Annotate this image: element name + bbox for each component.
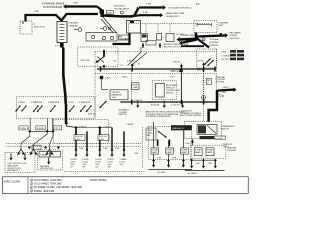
wire tag box lock 2 <box>98 135 109 141</box>
svg-text:UNIT: UNIT <box>219 25 225 27</box>
lock solenoid wire 1 upper <box>75 140 77 150</box>
node row wire <box>30 130 55 132</box>
fuse strip tick 2 <box>60 26 65 28</box>
lock solenoid wire 2 upper <box>86 131 88 150</box>
svg-text:1 BR: 1 BR <box>134 153 139 155</box>
svg-text:LOCKING: LOCKING <box>216 79 226 81</box>
junction lock wire r3 <box>214 159 217 162</box>
junction node row 1 <box>28 130 31 133</box>
junction top hatch 1 <box>142 44 145 47</box>
lamp box 2 <box>166 148 174 154</box>
wire feedbar to lock wires <box>66 123 76 127</box>
wire link right nodes <box>192 159 216 161</box>
wire switch drop 3 <box>52 118 54 131</box>
wire stub above bus 203 <box>203 63 205 70</box>
wire jog to breaker <box>102 88 109 90</box>
lock solenoid wire 3 arrow <box>99 150 101 154</box>
tailgate arrow <box>48 158 50 162</box>
svg-text:SWITCH: SWITCH <box>119 114 127 116</box>
dome wire 3 stub <box>182 154 184 160</box>
svg-text:10 RD/GN 1: 10 RD/GN 1 <box>114 6 127 8</box>
svg-text:P WINDOW: P WINDOW <box>79 102 90 104</box>
dashed separator upper <box>6 142 142 144</box>
wire lock row link <box>76 127 112 129</box>
svg-text:OVER: OVER <box>147 130 153 132</box>
svg-text:4 RD 1: 4 RD 1 <box>122 77 129 79</box>
svg-text:CONTROLLER: CONTROLLER <box>166 90 180 92</box>
junction lock solenoid wire 5 <box>123 149 126 152</box>
fuse strip tick 1 <box>60 23 65 25</box>
svg-text:77a: 77a <box>218 94 224 98</box>
junction node relay out <box>131 63 134 66</box>
svg-text:5 RD 30: 5 RD 30 <box>173 62 181 64</box>
dashed enclosure left edge <box>94 52 96 118</box>
svg-text:JUNCTION: JUNCTION <box>34 27 45 29</box>
lamp cluster bulb 2 <box>102 36 105 39</box>
lock solenoid wire 5 arrow <box>123 150 125 154</box>
wire stub above bus 181 <box>180 64 182 70</box>
svg-text:DOOR: DOOR <box>83 159 90 161</box>
wire node to actuator 1 <box>21 131 30 146</box>
rear inner small box <box>146 128 156 140</box>
solenoid wire b <box>163 101 165 106</box>
wire down from combination switch <box>192 139 194 146</box>
battery junction terminal <box>22 21 24 24</box>
svg-text:DM: DM <box>207 80 210 82</box>
svg-text:LIGHTS: LIGHTS <box>230 35 238 37</box>
svg-text:POSITION BULB: POSITION BULB <box>43 6 62 9</box>
fuse box 5 10A <box>146 41 156 46</box>
ignition switch second diagonal <box>98 57 105 63</box>
wire node to bus left <box>103 66 105 69</box>
wire switch drop 1 <box>29 118 31 131</box>
wire dome feed 1 <box>153 122 155 148</box>
left actuator arrow 2 <box>24 154 26 158</box>
master switch blade 2 <box>33 106 38 112</box>
dashed box top edge right of relay <box>129 23 210 25</box>
svg-text:P WDO: P WDO <box>18 102 25 104</box>
diagonal wires junction to lamp cluster <box>103 17 116 33</box>
svg-text:DOME: DOME <box>207 149 214 151</box>
connector hatch top 1 <box>142 43 143 48</box>
svg-text:FUSE: FUSE <box>132 85 138 87</box>
svg-text:2 127: 2 127 <box>170 77 176 79</box>
master switch blade 0 <box>16 106 21 112</box>
svg-text:ELECTRONIC ENGINE: ELECTRONIC ENGINE <box>180 115 202 117</box>
svg-text:2 127 RD: 2 127 RD <box>171 104 180 106</box>
arrow to slide bottom feed <box>139 6 163 8</box>
svg-text:4 127 RD: 4 127 RD <box>134 100 143 102</box>
junction stub 203 <box>202 63 205 66</box>
svg-text:VEHICLE: VEHICLE <box>166 88 175 90</box>
junction node row 3 <box>51 130 54 133</box>
wire thick diagonal to switch box <box>197 38 210 48</box>
bus1 connector hatch d <box>203 67 204 72</box>
combination switch hatch fill <box>198 125 206 133</box>
bus2 connector hatch c <box>203 100 204 105</box>
svg-text:WDO SW: WDO SW <box>81 60 90 62</box>
wire arrow to parking brake <box>66 5 97 7</box>
dome wire 3 arrow <box>182 161 184 165</box>
dome light label box <box>206 79 212 85</box>
tailgate actuator dashed box <box>38 150 63 170</box>
junction lock solenoid wire 2 <box>86 149 89 152</box>
wire switch drop 2 <box>46 118 48 131</box>
wire blob down <box>101 79 103 89</box>
lamp box 1 <box>151 148 159 154</box>
combination switch component <box>197 124 217 134</box>
ground bus right <box>185 169 225 171</box>
svg-text:NO GND: NO GND <box>157 172 166 174</box>
dashed vertical mid 131 <box>130 69 132 102</box>
actuator motor 2 <box>33 147 35 150</box>
svg-text:CLOSED: CLOSED <box>119 112 128 114</box>
ignition switch thick stub <box>103 51 105 57</box>
circled 2 on diagonal <box>108 27 111 30</box>
junction feed bar bottom <box>65 122 68 125</box>
svg-text:2 127 RD: 2 127 RD <box>171 71 180 73</box>
arrow left lower feed <box>182 40 197 43</box>
wire node to actuator 2 <box>34 131 48 146</box>
svg-text:1 BR: 1 BR <box>208 163 213 165</box>
dashed separator lower <box>6 145 142 147</box>
component box small 2 <box>157 34 162 41</box>
svg-text:4 BK 10: 4 BK 10 <box>88 113 96 115</box>
svg-text:2 BODY WIRING: 2 BODY WIRING <box>90 180 108 182</box>
main bus wire upper <box>97 68 216 70</box>
junction actuator b <box>44 146 47 149</box>
fuse strip tick 4 <box>60 32 65 34</box>
lamp cluster bulb 1 <box>91 35 94 38</box>
svg-text:NO GND 1: NO GND 1 <box>188 173 199 175</box>
legend row 4 digit <box>30 190 32 192</box>
svg-text:1 BK 4: 1 BK 4 <box>185 143 191 145</box>
wire stub flasher right to haz wire <box>220 33 222 37</box>
svg-text:LOCK: LOCK <box>108 162 114 164</box>
lamp box 3 <box>181 148 189 154</box>
svg-text:5 RD: 5 RD <box>34 11 39 13</box>
svg-text:WIRE COLORS:: WIRE COLORS: <box>4 181 21 183</box>
fuse strip tick 5 <box>60 35 65 37</box>
svg-text:4 BK/Y: 4 BK/Y <box>223 87 230 89</box>
svg-text:FRONT DOOR: FRONT DOOR <box>8 168 22 170</box>
svg-text:DOME: DOME <box>167 150 174 152</box>
wire thick down to combination switch <box>209 90 217 122</box>
svg-text:X PARKING BRAKE: X PARKING BRAKE <box>42 2 65 5</box>
anti-theft ic box <box>156 83 165 97</box>
master switch blade 6 <box>80 106 85 112</box>
junction label box SJB <box>107 11 114 15</box>
wire vertical 181 between buses <box>180 69 182 102</box>
master switch blade 1 <box>22 106 27 112</box>
junction dome wire 3 <box>182 159 185 162</box>
svg-text:SW: SW <box>147 135 150 137</box>
bus1 connector hatch c <box>181 67 182 72</box>
component box solid small <box>141 34 148 42</box>
lamp symbol 2 near cluster <box>103 27 107 31</box>
svg-text:DOOR: DOOR <box>108 159 115 161</box>
dome wire 1 stub <box>153 154 155 160</box>
anti-theft ic pins <box>155 84 156 86</box>
turn switch blade 1 <box>205 59 211 65</box>
lock solenoid wire 5 upper <box>123 131 125 150</box>
anti-theft dashed box <box>152 81 176 100</box>
svg-text:LOCK: LOCK <box>96 162 102 164</box>
tailgate dark component <box>39 152 50 158</box>
dashed drop wire 2 <box>157 24 159 34</box>
combination switch dashed box <box>184 122 221 139</box>
tag box 10 b rd <box>36 126 45 130</box>
svg-text:B7 RD: B7 RD <box>198 61 204 63</box>
connector hatch top 2 <box>159 43 160 48</box>
svg-text:SWITCH 5: SWITCH 5 <box>230 38 241 40</box>
component box small 3 <box>166 34 174 42</box>
switch row feed bar thick <box>65 104 68 123</box>
rear dark component 2 <box>200 136 215 139</box>
master switch dashed box <box>16 97 95 118</box>
svg-text:5 P: 5 P <box>55 46 59 48</box>
svg-text:1 BR: 1 BR <box>172 158 177 160</box>
ground bus left <box>149 169 193 171</box>
lock solenoid wire 1 arrow <box>75 150 77 154</box>
wire feed from junction to arrow <box>97 7 102 16</box>
lock wire r1 arrow <box>191 160 193 166</box>
wire relay to lamp cluster thick L <box>113 33 130 44</box>
junction node row 2 <box>46 130 49 133</box>
lock unit box 2 <box>206 148 214 156</box>
master switch blade 7 <box>86 106 91 112</box>
svg-text:TO SLIDE BOTTOM 0-5: TO SLIDE BOTTOM 0-5 <box>168 7 192 9</box>
svg-text:5 DB LO: 5 DB LO <box>75 136 83 138</box>
junction lock wire 1 <box>74 126 77 129</box>
svg-text:P WINDOW: P WINDOW <box>48 102 59 104</box>
bus1 connector hatch b <box>132 67 133 72</box>
svg-text:P 27 Y: P 27 Y <box>54 128 61 130</box>
junction actuator c <box>57 146 60 149</box>
legend row 1 digit <box>30 179 32 181</box>
lamp cluster box <box>86 33 117 42</box>
lock wiring dashed box <box>53 120 108 144</box>
rear switch blade <box>159 132 167 138</box>
junction node ignition out <box>102 65 105 68</box>
svg-text:SWITCH: SWITCH <box>221 129 229 131</box>
lock wire r2 arrow <box>202 160 204 166</box>
left door actuator dashed box <box>5 153 35 173</box>
lock unit box 1 <box>194 148 202 156</box>
svg-text:1 BR: 1 BR <box>196 163 201 165</box>
bus2 connector hatch a <box>131 100 132 105</box>
svg-text:DOME: DOME <box>195 149 202 151</box>
svg-text:P WDO 1: P WDO 1 <box>20 128 29 130</box>
flasher internal element <box>197 24 212 26</box>
junction comb switch out <box>191 140 194 143</box>
svg-text:LOCKING: LOCKING <box>209 42 219 44</box>
arrow to headlight feed <box>147 14 160 16</box>
turn signal switch dashed box <box>197 49 217 68</box>
svg-text:DOOR: DOOR <box>71 159 78 161</box>
solenoid wire c <box>182 101 184 106</box>
main bus wire lower <box>120 101 216 103</box>
flasher unit dashed box <box>194 21 217 33</box>
junction lock solenoid wire 1 <box>75 149 78 152</box>
svg-text:L TURN: L TURN <box>222 55 230 57</box>
connector S blob mid left <box>100 76 103 79</box>
wire junction to relay bus thick <box>104 14 132 17</box>
legend table box <box>3 177 249 194</box>
svg-text:CIRCUIT: CIRCUIT <box>112 92 121 94</box>
rear thick bar 1 <box>157 140 159 147</box>
relay contact diagonal wires <box>128 52 142 66</box>
actuator tag box <box>32 145 41 149</box>
wire dome feed 2 <box>168 141 170 148</box>
svg-text:SYSTEM: SYSTEM <box>216 82 225 84</box>
junction lock wire 2 <box>98 126 101 129</box>
legend divider <box>27 177 29 194</box>
dashed vertical 1 BR <box>141 127 143 168</box>
dashed vertical 203 lower <box>203 102 205 122</box>
junction dome wire 1 <box>152 159 155 162</box>
svg-text:DOOR: DOOR <box>96 159 103 161</box>
junction dome wire 2 <box>167 159 170 162</box>
master switch blade 4 <box>50 106 55 112</box>
rear wiring dashed box <box>149 126 192 159</box>
wire node to actuator 3 <box>50 131 54 146</box>
junction top hatch 2 <box>159 44 162 47</box>
rear dark component <box>171 125 192 130</box>
svg-text:5 RD 30: 5 RD 30 <box>127 61 136 63</box>
master switch blade 3 <box>37 106 42 112</box>
left actuator arrow 1 <box>10 154 12 158</box>
svg-text:SOLENOID IS ENERGIZED: SOLENOID IS ENERGIZED <box>146 116 172 118</box>
wire node to bus relay <box>131 65 133 69</box>
bus1 connector hatch a <box>100 67 101 72</box>
ignition switch arrow <box>98 60 100 61</box>
wire lock drop 2 upper <box>99 128 101 135</box>
lock solenoid wire 4 upper <box>111 128 113 151</box>
fuse strip tick 6 <box>60 38 65 40</box>
dashed line below bus1 <box>95 73 216 75</box>
wire lock drop 1 upper <box>75 128 77 135</box>
dashed enclosure top edge <box>95 51 216 53</box>
inline connector circle 5 <box>120 11 123 14</box>
junction bus2 181 <box>180 101 183 104</box>
wire bus to headlight arrow <box>132 15 148 16</box>
junction stub 181 <box>180 64 183 67</box>
node circle crossing <box>202 96 206 100</box>
svg-text:WDO MOTOR: WDO MOTOR <box>40 168 53 170</box>
circuit breaker box <box>110 90 128 100</box>
solenoid wire a <box>137 101 139 106</box>
scan background <box>0 0 251 200</box>
lock solenoid wire 4 arrow <box>111 150 113 154</box>
lock solenoid wire 2 arrow <box>86 150 88 154</box>
lamp cluster bulb 3 <box>110 36 113 39</box>
svg-text:RD SECURITY: RD SECURITY <box>115 9 130 11</box>
fuse strip box <box>57 22 67 43</box>
junction actuator a <box>28 146 31 149</box>
svg-text:5 DB LO: 5 DB LO <box>99 136 107 138</box>
actuator motor 1 <box>20 147 22 150</box>
bus2 connector hatch b <box>181 100 182 105</box>
actuator motor 3 <box>49 147 51 150</box>
svg-text:1 RD 1: 1 RD 1 <box>105 78 112 80</box>
svg-text:5 MODEL: 5 MODEL <box>69 23 79 25</box>
svg-text:DOME: DOME <box>181 150 188 152</box>
wire vertical 203 between buses <box>203 69 205 102</box>
lock solenoid wire 3 upper <box>99 140 101 150</box>
svg-text:P WINDOW: P WINDOW <box>31 102 42 104</box>
svg-text:10 RD BK: 10 RD BK <box>151 104 161 106</box>
right locking dashed box <box>190 145 226 158</box>
master switch blade 5 <box>69 106 74 112</box>
main feed wire thick vertical <box>63 48 66 105</box>
svg-text:UNIT 45: UNIT 45 <box>166 92 174 94</box>
ignition switch dashed box <box>78 47 118 66</box>
svg-text:DK GN: DK GN <box>222 59 229 61</box>
arrow left to power seats feed <box>180 38 197 41</box>
dashed enclosure bottom edge <box>64 170 145 172</box>
svg-text:LOCK: LOCK <box>120 162 126 164</box>
dome wire 2 arrow <box>168 161 170 165</box>
junction lock solenoid wire 3 <box>98 149 101 152</box>
fuse box 2 <box>132 83 139 90</box>
tag box p wdo 1 <box>19 126 28 130</box>
lock wire r3 arrow <box>214 160 216 166</box>
bus1 connector hatch e <box>214 67 215 72</box>
tag box p 27 y <box>53 126 61 130</box>
circled plus central locking <box>202 38 205 41</box>
wire thick bar lower left <box>181 45 204 47</box>
svg-text:2 RD: 2 RD <box>73 2 78 4</box>
dome wire 2 stub <box>168 154 170 160</box>
connector blob below fuse strip <box>60 43 64 48</box>
svg-text:LOCK: LOCK <box>83 162 89 164</box>
dome wire 1 arrow <box>153 161 155 165</box>
window lockout switch blade <box>100 102 107 109</box>
relay control box <box>127 21 141 34</box>
connector blob 5 BK <box>180 69 183 73</box>
dashed drop wire 3 <box>169 24 171 34</box>
wire tag box lock 1 <box>74 135 85 141</box>
junction lock wire r2 <box>202 159 205 162</box>
dashed drop wire 1 <box>145 24 147 34</box>
svg-text:LOCK: LOCK <box>71 162 77 164</box>
svg-text:LOCKING: LOCKING <box>227 150 236 152</box>
svg-text:5 RD: 5 RD <box>143 12 148 14</box>
svg-text:LOCK: LOCK <box>68 102 74 104</box>
svg-text:DOME: DOME <box>152 150 159 152</box>
svg-text:10 B RD: 10 B RD <box>37 128 45 130</box>
lamp symbol near fuse strip <box>78 28 82 32</box>
fuse strip tick 3 <box>60 29 65 31</box>
svg-text:NO: NO <box>119 36 122 38</box>
svg-text:7 RD: 7 RD <box>146 4 151 6</box>
svg-text:1 B 12: 1 B 12 <box>172 102 179 104</box>
turn switch blade 2 <box>208 60 214 66</box>
wire relay bus riser thick <box>131 8 139 17</box>
relay box label NO TAILGATE <box>119 35 130 40</box>
power trunk wire thick vertical right <box>195 33 198 40</box>
wire dome feed 3 <box>182 130 184 148</box>
arrow to central locking feed <box>218 89 234 92</box>
battery junction dashed box <box>20 21 32 34</box>
wire battery junction to fuse strip <box>26 14 99 22</box>
rear thick bar 2 <box>168 140 170 147</box>
junction connector S34 blob <box>100 10 105 14</box>
svg-text:SYSTEM: SYSTEM <box>209 45 218 47</box>
ignition switch blade <box>98 57 105 62</box>
legend row 2 digit <box>30 183 32 185</box>
